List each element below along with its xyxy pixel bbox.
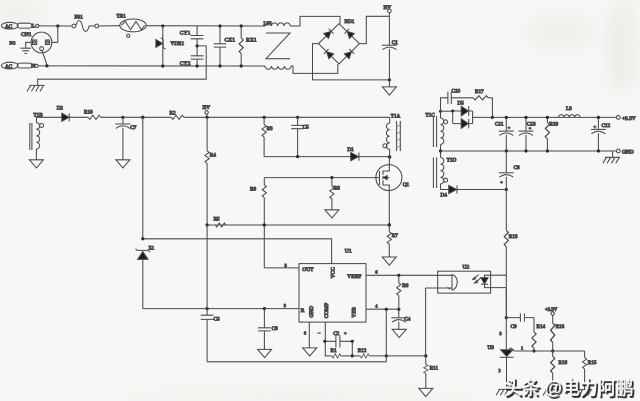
svg-text:U2: U2 bbox=[463, 265, 470, 271]
connector CN1 bbox=[21, 32, 52, 53]
svg-text:R7: R7 bbox=[392, 233, 398, 239]
wire N rail bbox=[38, 65, 265, 67]
ground C6 bbox=[258, 349, 272, 357]
capacitor C7 bbox=[115, 117, 136, 159]
pin GND of U1 bbox=[308, 322, 310, 348]
junction C13 top bbox=[524, 116, 527, 119]
ground R15 bbox=[575, 390, 592, 396]
junction CX1 bottom bbox=[218, 64, 221, 67]
svg-text:L: L bbox=[32, 24, 35, 30]
transformer winding T1A bbox=[383, 114, 401, 165]
svg-text:R2: R2 bbox=[170, 111, 176, 117]
wire bridge plus up to HV bbox=[359, 13, 389, 44]
wire U2 transistor emitter drop bbox=[426, 288, 438, 356]
svg-text:3: 3 bbox=[500, 331, 502, 336]
svg-text:R16: R16 bbox=[559, 360, 568, 366]
svg-text:VDR1: VDR1 bbox=[171, 41, 185, 47]
shunt regulator U3 TL431 bbox=[488, 275, 514, 389]
wire from L down to CN1 pin bbox=[52, 26, 58, 42]
thermistor TR1 bbox=[117, 14, 147, 38]
capacitor C10 bbox=[441, 89, 474, 112]
node FG bbox=[10, 41, 32, 48]
resistor R9 bbox=[250, 178, 266, 268]
node junction at L branch to CN1 bbox=[56, 24, 59, 27]
junction R19 bottom bbox=[546, 149, 549, 152]
capacitor CX1 bbox=[214, 26, 235, 66]
transistor Q1 bbox=[376, 165, 410, 225]
resistor RX1 bbox=[239, 26, 257, 66]
wire OUT drive line bbox=[264, 267, 299, 269]
junction RX1 top bbox=[240, 24, 243, 27]
wire gate line bbox=[264, 177, 379, 179]
ground U3 bbox=[496, 389, 513, 395]
capacitor C11 bbox=[495, 117, 514, 151]
resistor R15 bbox=[583, 351, 597, 390]
junction R18-R16 ref bbox=[551, 349, 554, 352]
svg-text:U3: U3 bbox=[488, 345, 495, 351]
svg-text:D2: D2 bbox=[57, 105, 64, 111]
svg-text:+3.3V: +3.3V bbox=[622, 116, 636, 122]
svg-text:VREF: VREF bbox=[347, 274, 361, 280]
svg-text:C1: C1 bbox=[392, 40, 398, 46]
svg-text:R19: R19 bbox=[550, 122, 559, 128]
resistor R3 bbox=[262, 117, 273, 156]
ground R16 bbox=[543, 390, 560, 396]
op-amp U1 PWM controller bbox=[299, 249, 366, 323]
junction VFB-R12drop bbox=[385, 308, 388, 311]
resistor R2 bbox=[170, 111, 390, 120]
junction CY midpoint bbox=[196, 44, 199, 47]
junction CX1 top bbox=[218, 24, 221, 27]
wire CN1 bottom pin to N bbox=[42, 50, 47, 66]
wire secondary ground rail bbox=[441, 150, 617, 152]
wire bottom rail bbox=[207, 361, 386, 363]
resistor R12 bbox=[352, 348, 426, 358]
svg-text:AC: AC bbox=[5, 24, 13, 30]
wire D2 to R10 bbox=[69, 116, 88, 118]
junction C11 bottom bbox=[505, 149, 508, 152]
wire output top rail bbox=[492, 116, 616, 118]
svg-text:R13: R13 bbox=[509, 234, 518, 240]
junction output node R17 bbox=[491, 116, 494, 119]
wire VFB drop bbox=[385, 309, 387, 362]
capacitor CY2 bbox=[180, 56, 204, 67]
junction HV rail to zener chain bbox=[141, 116, 144, 119]
svg-text:BD1: BD1 bbox=[345, 19, 355, 25]
capacitor CY1 bbox=[180, 26, 204, 56]
varistor VDR1 bbox=[156, 26, 185, 66]
svg-text:T1A: T1A bbox=[391, 114, 401, 120]
svg-text:Z1: Z1 bbox=[149, 245, 155, 251]
capacitor C2 bbox=[318, 330, 352, 347]
svg-text:C2: C2 bbox=[333, 331, 339, 337]
fuse FS1 bbox=[72, 15, 120, 32]
resistor R13 bbox=[504, 190, 518, 276]
resistor R16 bbox=[551, 351, 568, 390]
junction C11 top bbox=[505, 116, 508, 119]
zener Z1 bbox=[136, 245, 155, 308]
junction C2 right bbox=[351, 340, 354, 343]
resistor R11 bbox=[424, 356, 439, 388]
pin VREF line bbox=[366, 274, 438, 276]
transformer winding T1C bbox=[426, 111, 448, 151]
common mode choke LF1 bbox=[264, 21, 292, 69]
svg-text:C10: C10 bbox=[452, 89, 461, 95]
svg-text:2: 2 bbox=[499, 368, 501, 373]
junction Q1 source sense bbox=[388, 223, 391, 226]
svg-text:T1D: T1D bbox=[447, 157, 457, 163]
svg-text:AC: AC bbox=[5, 64, 13, 70]
junction C5 bottom bbox=[296, 155, 299, 158]
svg-text:CY1: CY1 bbox=[180, 30, 191, 36]
wire VCC feed line bbox=[143, 117, 332, 263]
svg-text:VCC: VCC bbox=[330, 267, 336, 278]
capacitor C13 bbox=[519, 117, 536, 151]
svg-text:D4: D4 bbox=[441, 193, 448, 199]
AC input terminal L bbox=[2, 22, 39, 30]
svg-text:R3: R3 bbox=[267, 126, 273, 132]
junction R19 top bbox=[546, 116, 549, 119]
wire C2 right drop bbox=[351, 341, 353, 356]
junction R3 top bbox=[263, 116, 266, 119]
junction gate R8 bbox=[330, 176, 333, 179]
junction R4 chain on R line bbox=[206, 307, 209, 310]
junction R12 line to VFB drop bbox=[385, 354, 388, 357]
svg-text:C8: C8 bbox=[514, 165, 520, 171]
diode D2 bbox=[57, 105, 69, 121]
svg-text:R5: R5 bbox=[214, 216, 220, 222]
svg-text:8: 8 bbox=[304, 330, 306, 335]
svg-text:CX1: CX1 bbox=[225, 38, 236, 44]
resistor R5 bbox=[214, 216, 226, 227]
svg-text:R14: R14 bbox=[537, 324, 546, 330]
ground U1 GND pin bbox=[303, 348, 317, 356]
junction T1C top node bbox=[439, 110, 442, 113]
junction C6 on R line bbox=[263, 307, 266, 310]
wire TL431 ref line bbox=[514, 350, 585, 352]
resistor R17 bbox=[473, 89, 492, 118]
svg-text:R: R bbox=[301, 308, 305, 314]
resistor R1 bbox=[325, 348, 353, 358]
junction HV-R4 bbox=[206, 116, 209, 119]
wire LF1 top out to bridge bbox=[290, 16, 340, 26]
ground T1B bbox=[29, 160, 43, 168]
transformer winding T1B bbox=[30, 112, 44, 159]
inductor L3 bbox=[559, 106, 581, 117]
svg-text:C7: C7 bbox=[130, 125, 136, 131]
svg-text:Q1: Q1 bbox=[403, 182, 410, 188]
svg-text:R6: R6 bbox=[402, 283, 408, 289]
resistor R14 bbox=[532, 318, 546, 351]
svg-text:R1: R1 bbox=[331, 348, 337, 354]
optocoupler U2 bbox=[438, 265, 507, 294]
wire L rail (TR1 to LF1) bbox=[146, 25, 265, 27]
svg-text:C3: C3 bbox=[214, 317, 220, 323]
ground R7 bbox=[382, 257, 396, 265]
resistor R10 bbox=[84, 110, 123, 120]
junction VDR1 top bbox=[161, 24, 164, 27]
svg-text:C11: C11 bbox=[495, 122, 504, 128]
svg-text:R9: R9 bbox=[250, 186, 256, 192]
ground C4 bbox=[392, 329, 406, 337]
ground R11 bbox=[419, 388, 433, 396]
ground C7 bbox=[116, 160, 130, 168]
junction VFB-R6-C4 bbox=[397, 308, 400, 311]
capacitor C6 bbox=[258, 309, 278, 350]
wire L from terminal to fuse bbox=[39, 25, 72, 27]
capacitor C5 bbox=[291, 117, 309, 156]
junction N-CN1 bbox=[45, 64, 48, 67]
ground HV bulk bbox=[388, 80, 390, 87]
junction CY2 bottom bbox=[196, 64, 199, 67]
svg-text:R15: R15 bbox=[588, 360, 597, 366]
pin VFB line bbox=[366, 308, 399, 310]
svg-text:RX1: RX1 bbox=[246, 38, 257, 44]
svg-text:FS1: FS1 bbox=[75, 15, 84, 21]
node HV terminal top bbox=[384, 5, 392, 13]
wire D5 output bbox=[473, 116, 493, 118]
svg-text:R4: R4 bbox=[210, 152, 216, 158]
junction zener tap bbox=[141, 237, 144, 240]
wire sense line R4 to Q1 source bbox=[207, 224, 389, 226]
junction VREF-R6 bbox=[397, 274, 400, 277]
resistor R6 bbox=[397, 275, 409, 309]
node GND output terminal bbox=[616, 149, 633, 155]
capacitor C1 bbox=[382, 16, 398, 80]
junction R4-R5 bbox=[206, 223, 209, 226]
diode D4 bbox=[441, 185, 507, 198]
junction HV cap bottom bbox=[388, 78, 391, 81]
AC input terminal N bbox=[2, 62, 39, 70]
resistor R19 bbox=[545, 117, 558, 151]
capacitor C8 bbox=[499, 151, 520, 190]
svg-text:COMP: COMP bbox=[324, 303, 330, 318]
wire HV rail segment C7 to R2 bbox=[123, 116, 171, 118]
junction C9 line bbox=[505, 316, 508, 319]
resistor R18 bbox=[551, 315, 565, 351]
svg-text:FG: FG bbox=[10, 41, 17, 46]
junction COMP-C2 bbox=[323, 340, 326, 343]
junction R9 sense bbox=[263, 223, 266, 226]
junction center tap bbox=[439, 149, 442, 152]
wire bridge minus to ground rail bbox=[313, 44, 390, 80]
capacitor C4 bbox=[391, 309, 410, 329]
svg-text:R18: R18 bbox=[556, 324, 565, 330]
bridge rectifier BD1 bbox=[319, 19, 360, 64]
resistor R8 bbox=[330, 178, 340, 210]
junction C5 top bbox=[296, 116, 299, 119]
diode D1 bbox=[347, 147, 389, 161]
svg-text:OUT: OUT bbox=[302, 267, 314, 273]
svg-text:U1: U1 bbox=[345, 249, 352, 255]
svg-text:R10: R10 bbox=[84, 110, 93, 116]
resistor R7 bbox=[387, 225, 398, 257]
wire T1C top to D5 bbox=[441, 110, 453, 112]
junction C12 bottom bbox=[597, 149, 600, 152]
svg-text:CY2: CY2 bbox=[180, 61, 191, 67]
svg-text:CN1: CN1 bbox=[21, 32, 32, 38]
dual diode D5 bbox=[453, 101, 473, 129]
svg-text:C12: C12 bbox=[602, 123, 611, 129]
svg-text:1: 1 bbox=[521, 345, 523, 350]
transformer winding T1D bbox=[433, 151, 456, 190]
wire CY midpoint tap to primary ground bbox=[38, 46, 207, 85]
svg-text:R11: R11 bbox=[430, 366, 439, 372]
wire R pin line (zener to U1) bbox=[143, 308, 299, 310]
junction VDR1 bottom bbox=[161, 64, 164, 67]
ground secondary chassis bbox=[603, 151, 620, 163]
capacitor C9 bbox=[506, 313, 534, 329]
svg-text:R17: R17 bbox=[475, 89, 484, 95]
ground primary chassis bbox=[27, 85, 44, 91]
svg-text:GND: GND bbox=[309, 306, 315, 318]
junction C12 top bbox=[597, 116, 600, 119]
junction RX1 bottom bbox=[240, 64, 243, 67]
resistor R4 bbox=[205, 117, 216, 225]
node HV terminal mid bbox=[203, 105, 211, 117]
node +3.3V feedback terminal bbox=[545, 308, 558, 316]
junction D4-C8 bbox=[505, 188, 508, 191]
capacitor C3 bbox=[201, 225, 220, 362]
svg-text:C9: C9 bbox=[511, 324, 517, 330]
junction C7 top bbox=[121, 116, 124, 119]
junction R14 ref bbox=[532, 349, 535, 352]
junction D5 anode bus bbox=[451, 110, 454, 113]
ground FG earth bbox=[20, 48, 31, 53]
wire LF1 bottom out to bridge bbox=[291, 64, 338, 73]
pin COMP of U1 bbox=[324, 322, 326, 356]
svg-text:R12: R12 bbox=[358, 348, 367, 354]
ground R8 bbox=[325, 210, 339, 218]
svg-text:C6: C6 bbox=[272, 326, 278, 332]
junction R11 top bbox=[424, 354, 427, 357]
svg-text:VFB: VFB bbox=[352, 307, 358, 318]
wire U2 LED cathode drop bbox=[505, 288, 507, 318]
wire aux rail to D2 bbox=[42, 116, 62, 118]
svg-text:GND: GND bbox=[622, 149, 634, 155]
svg-text:L3: L3 bbox=[566, 106, 572, 112]
junction R1-R12 bbox=[351, 354, 354, 357]
svg-text:R8: R8 bbox=[334, 186, 340, 192]
svg-text:TR1: TR1 bbox=[117, 14, 127, 20]
node +3.3V output terminal bbox=[616, 116, 635, 122]
capacitor C12 bbox=[591, 117, 611, 151]
junction D1 to Q1 drain bbox=[388, 155, 391, 158]
junction C13 bottom bbox=[524, 149, 527, 152]
wire snubber line R3 to D1 bbox=[264, 156, 351, 158]
